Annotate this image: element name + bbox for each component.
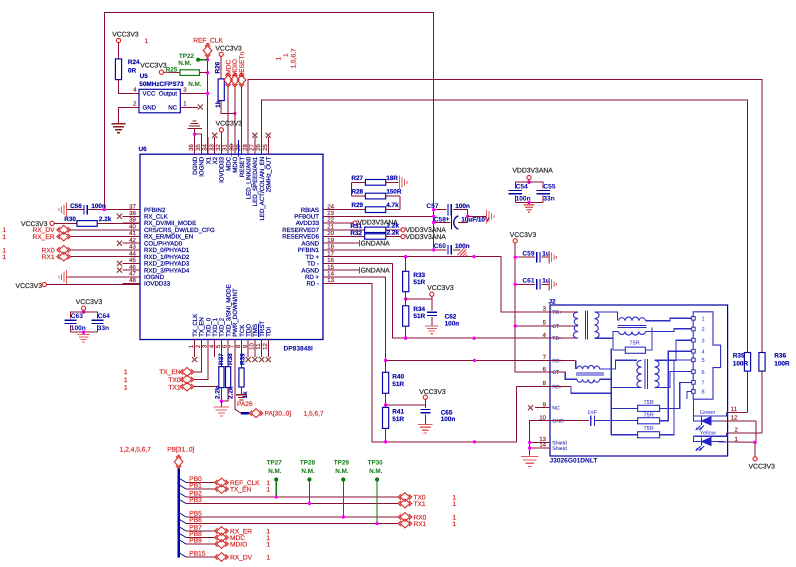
resistor R31 2.2k xyxy=(341,223,401,233)
resistor R24 0R xyxy=(115,59,140,94)
wire TD- net xyxy=(341,263,551,340)
net port RX1 xyxy=(2,252,140,261)
U6 pin 5 TXD_2 xyxy=(215,317,226,357)
U6 pin 29 RESET xyxy=(235,137,246,177)
svg-text:PB[31..0]: PB[31..0] xyxy=(167,447,194,454)
svg-text:150R: 150R xyxy=(386,189,402,196)
svg-text:PB15: PB15 xyxy=(189,551,205,558)
svg-text:+: + xyxy=(446,216,450,223)
wire LED yellow pin 2 xyxy=(727,426,762,433)
svg-text:PA26: PA26 xyxy=(237,401,253,408)
svg-text:35: 35 xyxy=(195,144,202,151)
no-connect X2 xyxy=(212,133,217,155)
svg-text:1: 1 xyxy=(145,38,149,45)
J2 jack contact 5 xyxy=(692,358,705,364)
oscillator U5 50MHzCFPS73 xyxy=(133,73,187,113)
ground C57/C58 xyxy=(468,209,494,223)
wire LED green pin 12 xyxy=(722,415,756,443)
resistor R33 51R xyxy=(403,257,426,299)
svg-text:1: 1 xyxy=(452,501,456,508)
resistor R27 18R xyxy=(351,175,398,196)
svg-text:17: 17 xyxy=(327,250,334,257)
resistor R25 N.M. xyxy=(140,62,207,87)
svg-text:N.M.: N.M. xyxy=(335,468,349,475)
U6 pin 40 CRS/CRS_DW/LED_CFG xyxy=(123,224,216,235)
svg-text:VCC3V3: VCC3V3 xyxy=(510,232,537,239)
net port RX0 xyxy=(2,246,140,255)
svg-text:PB9: PB9 xyxy=(189,538,202,545)
svg-text:100n: 100n xyxy=(455,243,470,250)
svg-text:20: 20 xyxy=(327,230,334,237)
svg-text:C64: C64 xyxy=(98,313,110,320)
svg-text:1: 1 xyxy=(124,377,128,384)
J2 resistor 75R (pair 4/5 b) xyxy=(611,360,691,438)
net port PA[30..0] xyxy=(249,409,324,418)
svg-text:R40: R40 xyxy=(392,374,404,381)
resistor R36 100R xyxy=(759,353,790,433)
U6 pin 4 TXD_1 xyxy=(208,317,219,357)
J2 jack contact 4 xyxy=(692,349,705,355)
J2 TX transformer core xyxy=(585,311,587,340)
svg-text:27: 27 xyxy=(249,144,256,151)
U6 pin 38 RX_CLK xyxy=(123,210,168,221)
net port RX_DV (PB15) xyxy=(215,553,271,562)
svg-text:TD+: TD+ xyxy=(552,310,562,316)
U6 pin 44 RXD_1/PHYAD2 xyxy=(123,250,190,260)
net port TX_EN (PB1) xyxy=(215,485,271,494)
capacitor C56 100n xyxy=(59,203,140,217)
U6 pin 20 RESERVED6 xyxy=(282,230,340,241)
svg-text:GND: GND xyxy=(552,419,564,425)
svg-text:23: 23 xyxy=(327,210,334,217)
svg-text:J2: J2 xyxy=(549,298,557,305)
svg-text:1nF: 1nF xyxy=(587,410,597,416)
svg-text:31: 31 xyxy=(222,144,229,151)
J2 pin 5 CT xyxy=(543,320,560,330)
J2 jack contact 8 xyxy=(692,390,705,396)
net port MDC xyxy=(224,60,233,155)
resistor R29 4.7k xyxy=(341,202,400,212)
U6 pin 2 TX_EN xyxy=(195,317,206,357)
J2 TX transformer secondary winding xyxy=(595,312,618,338)
U6 pin 17 TD + xyxy=(306,250,341,260)
svg-text:MDIO: MDIO xyxy=(230,542,247,549)
svg-text:TX_EN: TX_EN xyxy=(159,369,180,376)
capacitor C58 10uF/10V (polarized) xyxy=(432,215,490,230)
power port VCC3V3 (R26) xyxy=(215,45,242,79)
svg-text:34: 34 xyxy=(202,144,209,151)
U6 pin 3 TXD_0 xyxy=(202,317,213,357)
wire PB6 xyxy=(180,517,399,524)
svg-text:C55: C55 xyxy=(543,184,555,191)
power port VCC3V3 (IOVDD33 pin48) xyxy=(16,282,140,289)
svg-text:75R: 75R xyxy=(630,341,640,347)
svg-text:RX_DV: RX_DV xyxy=(230,555,253,562)
capacitor C62 100n xyxy=(427,299,459,327)
bus PB xyxy=(177,469,180,558)
U6 pin 11 TRST xyxy=(255,321,266,357)
svg-text:N.M.: N.M. xyxy=(301,468,315,475)
svg-text:39: 39 xyxy=(129,217,136,224)
J2 RX common-mode choke xyxy=(550,360,637,383)
svg-text:C63: C63 xyxy=(71,313,83,320)
no-connect J2 NC xyxy=(528,405,550,410)
net port RESETn xyxy=(237,52,246,155)
power port VCC3V3 (C63/C64) xyxy=(76,299,103,313)
U6 pin 48 IOVDD33 xyxy=(123,277,171,288)
capacitor C61 1u xyxy=(514,278,550,290)
svg-text:5: 5 xyxy=(702,358,705,364)
svg-text:1: 1 xyxy=(452,521,456,528)
wire PB7 xyxy=(180,525,216,532)
J2 TX common-mode choke xyxy=(613,317,692,350)
resistor R39 1k xyxy=(239,340,249,399)
U6 pin 16 TD - xyxy=(307,257,340,268)
svg-text:100R: 100R xyxy=(774,360,790,367)
svg-text:2.2k: 2.2k xyxy=(214,386,221,399)
svg-text:J3026G01DNLT: J3026G01DNLT xyxy=(550,458,598,465)
net port RX_ER xyxy=(2,232,140,241)
svg-text:C60: C60 xyxy=(434,243,446,250)
svg-text:1,5,6,7: 1,5,6,7 xyxy=(291,48,298,68)
svg-text:PB1: PB1 xyxy=(189,483,202,490)
J2 RX transformer secondary winding xyxy=(655,340,692,387)
U6 pin 24 RBIAS xyxy=(301,203,341,214)
no-connect U5 NC xyxy=(180,104,203,109)
svg-text:25: 25 xyxy=(262,144,269,151)
svg-text:Shield: Shield xyxy=(552,446,567,452)
svg-text:VCC: VCC xyxy=(143,91,156,98)
U6 pin 23 PFBOUT xyxy=(294,210,340,221)
svg-text:Green: Green xyxy=(700,410,716,416)
svg-text:1: 1 xyxy=(266,487,270,494)
svg-text:R27: R27 xyxy=(351,175,363,182)
U6 pin 46 RXD_3/PHYAD4 xyxy=(123,264,190,275)
resistor R32 2.2k xyxy=(341,229,401,239)
svg-text:PB6: PB6 xyxy=(189,517,202,524)
J2 jack contact 7 xyxy=(692,381,705,387)
resistor R41 51R xyxy=(383,405,405,442)
wire LED green pin 11 xyxy=(727,406,748,413)
capacitor C60 100n xyxy=(341,243,470,255)
power port VCC3V3 (LEDs) xyxy=(749,442,776,470)
power port VDD3V3ANA (R31) xyxy=(401,227,446,234)
wire PFBOUT feedback loop xyxy=(104,13,433,250)
svg-text:1: 1 xyxy=(283,53,290,57)
net port RX1 (right) xyxy=(398,519,456,528)
svg-text:PB3: PB3 xyxy=(189,497,202,504)
svg-text:R38: R38 xyxy=(227,353,234,365)
annotations 1 1 1,5,6,7 xyxy=(276,48,298,68)
resistor R28 150R xyxy=(351,189,401,210)
wire PB3 xyxy=(180,497,399,504)
J2 pin 10 GND xyxy=(539,414,564,424)
svg-text:N.M.: N.M. xyxy=(268,468,282,475)
svg-text:33n: 33n xyxy=(98,325,109,332)
svg-text:2: 2 xyxy=(133,100,137,107)
svg-text:16: 16 xyxy=(327,257,334,264)
IC U6 DP83848I xyxy=(139,146,324,352)
svg-text:100n: 100n xyxy=(91,203,106,210)
svg-text:1: 1 xyxy=(266,542,270,549)
ground R39 xyxy=(236,395,247,400)
svg-text:48: 48 xyxy=(129,277,136,284)
capacitor C57 100n xyxy=(426,203,470,216)
U6 pin 25 25MHz_OUT xyxy=(262,137,273,192)
wire PB0 xyxy=(180,476,216,483)
svg-text:7: 7 xyxy=(702,381,705,387)
net port MDIO xyxy=(231,59,240,154)
svg-text:R39: R39 xyxy=(240,353,247,365)
svg-text:TD-: TD- xyxy=(552,336,561,342)
J2 pin 8 RD- xyxy=(543,380,562,390)
svg-text:RX_ER: RX_ER xyxy=(33,234,55,241)
J2 pin 4 TD- xyxy=(543,332,562,342)
U6 pin 33 X2 xyxy=(208,137,219,164)
J2 pin 7 RD+ xyxy=(543,354,563,364)
wire PA26 (PWR_DOWN/INT) xyxy=(235,340,253,414)
svg-text:N.M.: N.M. xyxy=(188,81,202,88)
svg-text:R41: R41 xyxy=(392,409,404,416)
J2 pin 9 NC xyxy=(543,401,560,411)
U6 pin 41 RX_ER/MDIX_EN xyxy=(123,230,194,241)
U6 pin 47 IOGND xyxy=(123,271,165,282)
test point TP22 N.M. xyxy=(178,53,207,67)
svg-text:15: 15 xyxy=(327,264,334,271)
wire PB1 xyxy=(180,483,216,490)
wire LED_LINK/AN0 net to R36 xyxy=(248,80,762,353)
capacitor C55 33n xyxy=(529,182,556,202)
svg-text:0R: 0R xyxy=(128,67,137,74)
ground C59 xyxy=(549,251,556,264)
U6 pin 32 IOVDD33 xyxy=(215,137,226,183)
no-connect 25MHz_OUT xyxy=(266,133,271,155)
resistor R30 2.2k xyxy=(21,216,140,228)
J2 pin 6 CT xyxy=(543,366,560,376)
wire TD+ net xyxy=(341,255,551,312)
svg-text:1: 1 xyxy=(266,555,270,562)
svg-text:R29: R29 xyxy=(351,202,363,209)
svg-text:U5: U5 xyxy=(140,73,149,80)
svg-text:1: 1 xyxy=(2,254,6,261)
svg-text:6: 6 xyxy=(702,370,705,376)
svg-text:VCC3V3: VCC3V3 xyxy=(76,299,103,306)
U6 pin 21 RESERVED7 xyxy=(282,224,340,235)
net port RX0 (right) xyxy=(398,513,456,522)
svg-text:VCC3V3: VCC3V3 xyxy=(16,283,43,290)
U6 pin 6 TXD_3/SNI_MODE xyxy=(222,284,233,357)
svg-text:1: 1 xyxy=(276,57,283,61)
wire LED_ACT/COL/AN_EN net to R35 xyxy=(262,100,748,353)
capacitor C54 100n xyxy=(509,182,531,202)
svg-text:VCC3V3: VCC3V3 xyxy=(216,121,243,128)
LED green (link) xyxy=(694,410,727,430)
svg-text:50MHzCFPS73: 50MHzCFPS73 xyxy=(139,81,184,88)
J2 pin 14 Shield xyxy=(539,442,567,452)
J2 jack contact 1 xyxy=(692,317,705,323)
svg-text:2.2k: 2.2k xyxy=(99,216,112,223)
U6 pin 12 TDI xyxy=(262,327,273,357)
svg-text:VDD3V3ANA: VDD3V3ANA xyxy=(512,168,553,175)
wire center tap TX (J2 pin5) xyxy=(514,324,551,327)
svg-text:4.7k: 4.7k xyxy=(386,202,399,209)
svg-text:C61: C61 xyxy=(522,278,534,285)
svg-text:U6: U6 xyxy=(139,146,148,153)
svg-text:2.2k: 2.2k xyxy=(387,229,400,236)
svg-text:100n: 100n xyxy=(445,320,460,327)
svg-text:100n: 100n xyxy=(455,203,470,210)
wire J2 contact8 down xyxy=(687,391,694,416)
svg-text:100n: 100n xyxy=(441,416,456,423)
capacitor C63 100n xyxy=(65,312,86,332)
svg-text:R26: R26 xyxy=(215,61,222,73)
wire LED yellow pin 1 xyxy=(728,436,757,444)
power port VCC3V3 (R24) xyxy=(112,31,139,59)
LED yellow (activity) xyxy=(694,429,728,450)
svg-text:1,5,6,7: 1,5,6,7 xyxy=(304,411,324,418)
wire J2 RD- internal xyxy=(550,349,611,435)
resistor R35 100R xyxy=(733,353,751,413)
svg-text:1: 1 xyxy=(124,369,128,376)
J2 resistor 75R (pair 7/8) xyxy=(611,382,691,411)
svg-text:R36: R36 xyxy=(774,353,786,360)
svg-text:C58: C58 xyxy=(434,216,446,223)
svg-text:VCC3V3: VCC3V3 xyxy=(215,45,242,52)
wire J2 GND/shield to ground xyxy=(528,421,550,456)
svg-text:RD -: RD - xyxy=(306,281,319,288)
svg-text:1: 1 xyxy=(124,384,128,391)
wire PB8 xyxy=(180,531,216,538)
wire PB5 xyxy=(180,511,399,518)
svg-text:RD+: RD+ xyxy=(552,358,563,364)
svg-text:13: 13 xyxy=(327,277,334,284)
no-connect RXD_2/PHYAD3 xyxy=(117,261,140,266)
capacitor C65 100n xyxy=(420,405,455,424)
J2 jack contact 3 xyxy=(692,338,705,344)
wire RD+ net xyxy=(341,277,551,362)
U6 pin 45 RXD_2/PHYAD3 xyxy=(123,257,190,268)
no-connect TDO pin9 xyxy=(246,340,251,363)
svg-text:75R: 75R xyxy=(644,426,654,432)
net port PB[31..0] xyxy=(167,447,194,469)
svg-text:R24: R24 xyxy=(128,59,140,66)
svg-text:IOVDD33: IOVDD33 xyxy=(144,281,171,288)
power port VCC3V3 (IOVDD33 pin32) xyxy=(216,121,243,155)
J2 resistor 75R (TX tap) xyxy=(613,328,652,354)
wire U5 output / X1 net xyxy=(180,57,209,154)
U6 pin 26 LED_ACT/COL/AN_EN xyxy=(255,137,266,220)
svg-text:N.M.: N.M. xyxy=(369,468,383,475)
svg-text:3: 3 xyxy=(183,87,187,94)
J2 pin 13 Shield xyxy=(539,436,567,446)
svg-text:33: 33 xyxy=(208,144,215,151)
no-connect TDI pin12 xyxy=(266,340,271,363)
svg-text:NC: NC xyxy=(168,104,177,111)
J2 RJ45 jack outline xyxy=(693,312,720,399)
svg-text:PA[30..0]: PA[30..0] xyxy=(265,411,292,418)
svg-text:4: 4 xyxy=(133,87,137,94)
svg-text:CT: CT xyxy=(552,324,560,330)
svg-text:GND: GND xyxy=(143,104,157,111)
ground R27 xyxy=(400,175,408,189)
svg-text:1: 1 xyxy=(183,100,187,107)
annotation 1,2,4,5,6,7 xyxy=(120,447,151,454)
svg-text:2: 2 xyxy=(702,327,705,333)
no-connect TMS pin10 xyxy=(252,340,257,363)
ground J2 shield xyxy=(521,457,539,467)
resistor R40 51R xyxy=(383,360,405,406)
svg-text:R30: R30 xyxy=(64,216,76,223)
svg-text:32: 32 xyxy=(215,144,222,151)
U6 pin 14 RD + xyxy=(305,271,341,282)
wire PB2 xyxy=(180,491,399,498)
svg-text:GNDANA: GNDANA xyxy=(361,240,391,247)
svg-text:Yellow: Yellow xyxy=(700,429,717,436)
resistor R37 2.2k xyxy=(214,340,225,402)
net port RX_ER (PB7) xyxy=(215,527,271,536)
J2 TX transformer primary winding xyxy=(550,312,578,338)
U6 pin 9 TDO xyxy=(242,324,253,357)
ground U5 xyxy=(112,124,126,133)
power port VCC3V3 (C62) xyxy=(406,285,454,299)
power port VDD3V3ANA (C54/C55) xyxy=(512,168,553,184)
svg-text:RX1: RX1 xyxy=(42,254,55,261)
svg-text:25MHz_OUT: 25MHz_OUT xyxy=(266,157,273,193)
svg-text:51R: 51R xyxy=(392,416,404,423)
net port TX1 (left) xyxy=(124,340,222,392)
U6 pin 43 RXD_0/PHYAD1 xyxy=(123,244,190,255)
wire U5 GND xyxy=(119,107,140,123)
net port TX0 (left) xyxy=(124,340,208,384)
ground IOGND pin47 xyxy=(59,270,140,284)
ground C61 xyxy=(549,278,556,291)
resistor R38 2.2k xyxy=(220,340,235,403)
net port TX0 (right) xyxy=(398,493,456,502)
svg-text:36: 36 xyxy=(188,144,195,151)
U6 pin 30 MDIO xyxy=(228,137,239,173)
ground C54/C55 xyxy=(515,201,543,213)
svg-text:51R: 51R xyxy=(413,313,425,320)
net port REF_CLK (PB0) xyxy=(215,478,271,487)
svg-text:TP27: TP27 xyxy=(267,459,283,466)
svg-text:18R: 18R xyxy=(386,175,398,182)
U6 pin 18 PFBIN1 xyxy=(298,244,341,255)
svg-text:8: 8 xyxy=(702,390,705,396)
U6 pin 15 AGND xyxy=(301,264,340,275)
svg-text:REF_CLK: REF_CLK xyxy=(193,38,223,45)
svg-text:CT: CT xyxy=(552,370,560,376)
J2 jack contact 2 xyxy=(692,327,705,333)
U6 pin 7 PWR_DOWN/INT xyxy=(228,288,239,357)
svg-text:NC: NC xyxy=(552,406,560,412)
svg-text:C57: C57 xyxy=(426,203,438,210)
svg-text:51R: 51R xyxy=(413,279,425,286)
svg-text:C59: C59 xyxy=(522,250,534,257)
J2 jack contact 6 xyxy=(692,370,705,376)
U6 pin 1 TX_CLK xyxy=(188,314,199,357)
svg-text:VCC3V3: VCC3V3 xyxy=(749,464,776,471)
U6 pin 36 DGND xyxy=(188,137,199,175)
svg-text:51R: 51R xyxy=(392,381,404,388)
svg-text:Output: Output xyxy=(159,91,178,98)
svg-text:TX0: TX0 xyxy=(168,377,180,384)
test point TP30 N.M. xyxy=(368,459,384,525)
test point TP28 N.M. xyxy=(300,459,316,505)
svg-text:1: 1 xyxy=(702,317,705,323)
net port TX1 (right) xyxy=(398,499,456,508)
no-connect LED_SPEED/AN1 xyxy=(252,133,257,155)
U6 pin 28 LED_LINK/AN0 xyxy=(242,137,253,199)
